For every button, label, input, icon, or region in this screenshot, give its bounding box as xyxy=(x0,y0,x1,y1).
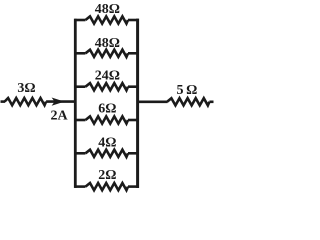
wire: input lead left edge xyxy=(1,100,6,103)
wire: right stub of branch 2 xyxy=(128,52,139,55)
svg-text:4Ω: 4Ω xyxy=(98,136,116,151)
wire: left stub of branch 1 xyxy=(74,19,85,22)
resistor R3 24Ω (branch 3) xyxy=(86,83,129,90)
svg-text:3Ω: 3Ω xyxy=(17,81,35,96)
svg-text:6Ω: 6Ω xyxy=(98,101,116,116)
wire: left stub of branch 3 xyxy=(74,85,85,88)
wire: right stub of branch 3 xyxy=(128,85,139,88)
resistor R2 48Ω (branch 2) xyxy=(86,50,129,57)
svg-text:48Ω: 48Ω xyxy=(95,36,120,51)
resistor R4 6Ω (branch 4) xyxy=(86,116,129,123)
resistor R6 2Ω (branch 6) xyxy=(86,183,129,190)
wire: right stub of branch 5 xyxy=(128,152,139,155)
svg-text:5Ω: 5Ω xyxy=(176,83,199,98)
wire: right stub of branch 1 xyxy=(128,19,139,22)
right rail (node B bus) xyxy=(136,19,139,188)
svg-text:2A: 2A xyxy=(50,109,68,124)
svg-text:2Ω: 2Ω xyxy=(98,168,116,183)
wire: right stub of branch 6 xyxy=(128,185,139,188)
resistor R5 4Ω (branch 5) xyxy=(86,150,129,157)
wire: left stub of branch 6 xyxy=(74,185,85,188)
wire: right stub of branch 4 xyxy=(128,119,139,122)
wire: left stub of branch 2 xyxy=(74,52,85,55)
current arrow 2A into node A xyxy=(52,98,65,106)
svg-text:48Ω: 48Ω xyxy=(95,2,120,17)
wire: left stub of branch 4 xyxy=(74,119,85,122)
wire: output lead from node B xyxy=(138,101,168,104)
resistor R1 48Ω (branch 1) xyxy=(86,16,129,23)
resistor R8 5Ω (series output) xyxy=(167,98,209,105)
svg-text:24Ω: 24Ω xyxy=(95,68,120,83)
left rail (node A bus) xyxy=(74,19,77,188)
wire: left stub of branch 5 xyxy=(74,152,85,155)
resistor R7 3Ω (series input) xyxy=(5,98,47,105)
wire: from 3Ω to arrow and node A xyxy=(46,100,75,103)
wire: output tail xyxy=(209,101,213,104)
